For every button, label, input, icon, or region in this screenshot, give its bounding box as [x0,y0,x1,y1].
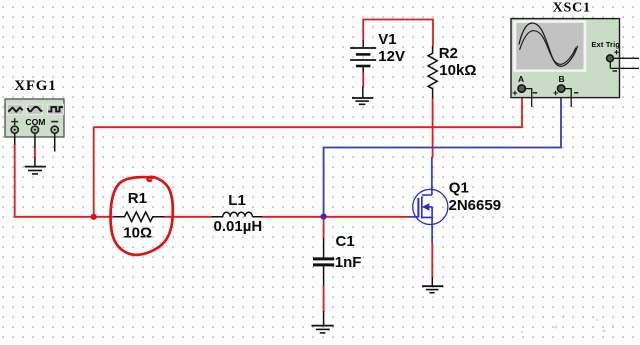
wire: V1 bottom to ground [362,72,364,87]
wire: node to scope channel B (blue) [324,93,561,216]
wire: C1 bottom to ground [323,285,325,312]
wire: XFG1 + terminal down to main net [14,144,16,217]
inductor L1 [212,212,263,217]
XSC1 ext trig terminal [607,55,614,62]
XSC1 terminal B [558,85,565,92]
wire: L1 to node and to Q1 gate [263,216,408,218]
svg-text:A: A [518,74,524,84]
wire: node to C1 top [323,217,325,239]
XFG1 plus terminal mark [11,118,18,125]
XSC1 B plus mark [553,91,558,96]
XFG1 terminal posts [11,126,58,133]
svg-text:0.01µH: 0.01µH [214,218,263,235]
XSC1 B negative pin stub [565,89,571,107]
XSC1 terminal A [518,85,525,92]
wire: XFG COM to ground [34,147,36,158]
capacitor C1 [313,238,334,286]
wire: main horizontal net segment XFG to R1 [14,216,114,218]
mosfet Q1 [407,157,448,243]
svg-text:12V: 12V [378,48,405,65]
svg-text:10Ω: 10Ω [123,225,152,242]
oscilloscope XSC1 body [511,19,620,98]
svg-text:L1: L1 [228,192,246,209]
svg-text:XFG1: XFG1 [14,78,56,94]
XSC1 B minus mark [574,92,578,94]
XFG1 pin stubs [15,134,55,152]
faint artifacts bottom right [521,315,614,333]
XSC1 A negative pin stub [526,89,532,107]
hand-drawn red circle around R1 [111,177,173,255]
XSC1 A plus mark [513,91,518,96]
svg-text:XSC1: XSC1 [553,0,591,15]
XFG1 minus terminal mark [51,121,58,123]
wire: horizontal to scope channel A [94,126,522,128]
wire: V1 top to R2 top [363,20,433,47]
svg-text:V1: V1 [378,31,396,48]
svg-text:Ext Trig: Ext Trig [591,40,620,49]
XSC1 A minus mark [533,92,537,94]
svg-text:2N6659: 2N6659 [449,197,502,214]
wire: scope A vertical [521,93,523,128]
svg-text:Q1: Q1 [449,179,469,196]
svg-text:R2: R2 [439,45,458,62]
function generator XFG1 body [5,99,64,137]
battery V1 [350,40,376,72]
svg-text:B: B [559,74,565,84]
wire: R1 to L1 [165,216,212,218]
wire: Q1 source to ground [431,243,433,278]
resistor R1 [114,212,165,222]
svg-text:R1: R1 [128,190,147,207]
wire: R2 bottom to Q1 drain [432,99,434,158]
ground under V1 [352,87,373,105]
node junction at C1/scope B [321,214,327,220]
svg-text:C1: C1 [336,233,355,250]
node junction at XFG branch [91,214,97,220]
svg-text:1nF: 1nF [335,254,362,271]
svg-text:10kΩ: 10kΩ [439,62,476,79]
resistor R2 [428,46,437,99]
ground under C1 [312,311,334,333]
wire: branch vertical to scope feed [93,127,95,217]
ground under XFG1 COM [25,158,46,174]
ground under Q1 source [422,277,443,293]
